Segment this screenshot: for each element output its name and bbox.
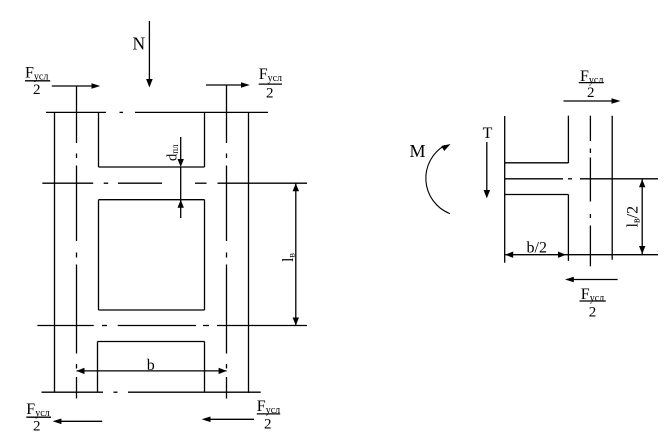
label F_usl/2 upper-left xyxy=(25,65,48,98)
bottom reference line xyxy=(505,254,658,256)
svg-text:2: 2 xyxy=(33,418,41,434)
dimension l_v/2 xyxy=(639,179,645,254)
bottom chord solid part 1 xyxy=(42,391,104,393)
force F upper-right arrow xyxy=(206,82,250,88)
opening row3 top edge xyxy=(98,341,205,343)
label F_usl/2 lower-right xyxy=(257,398,280,432)
opening left edge row3 xyxy=(97,342,99,393)
force N arrow xyxy=(146,21,153,88)
opening left edge row1 xyxy=(98,112,100,167)
force F lower-left arrow xyxy=(53,419,103,425)
upper opening bottom edge xyxy=(505,162,569,164)
label F_usl/2 lower-left xyxy=(26,401,49,434)
dimension b xyxy=(77,368,227,374)
bottom chord solid part 2 xyxy=(128,391,261,393)
floor centerline right-diagram xyxy=(505,178,658,180)
dimension d_pl arrows xyxy=(178,137,184,218)
force F lower-right arrow xyxy=(202,417,254,423)
wall edge right-diagram left xyxy=(504,116,506,263)
moment M arc xyxy=(426,144,451,214)
floor centerline 1 xyxy=(42,182,307,184)
fraction bar upper-left xyxy=(25,80,50,82)
label F_usl/2 right-bottom xyxy=(581,286,604,320)
svg-text:b: b xyxy=(147,357,155,374)
wall edge right-diagram right xyxy=(611,116,613,260)
svg-text:2: 2 xyxy=(266,86,274,102)
svg-text:lв/2: lв/2 xyxy=(625,206,643,228)
opening right edge row1 xyxy=(204,112,206,167)
label F_usl/2 upper-right xyxy=(259,66,282,102)
dimension l_v xyxy=(293,183,299,325)
fraction bar upper-right xyxy=(259,83,282,85)
opening edge lower xyxy=(567,195,569,261)
force F upper-left arrow xyxy=(52,83,100,89)
svg-text:b/2: b/2 xyxy=(527,239,547,256)
right pier centerline xyxy=(226,85,228,399)
fraction bar lower-right xyxy=(257,413,280,415)
wall outer edge right xyxy=(248,112,250,393)
force F right-bottom arrow xyxy=(565,277,618,283)
svg-text:M: M xyxy=(410,141,426,161)
wall centerline right-diagram xyxy=(589,116,591,267)
fraction bar right-bottom xyxy=(580,300,606,302)
svg-text:T: T xyxy=(483,125,493,142)
opening right edge row3 xyxy=(204,342,206,393)
lower opening top edge xyxy=(505,194,569,196)
opening row1 bottom edge xyxy=(99,166,205,168)
opening row2 top edge xyxy=(99,199,205,201)
top chord solid part 2 xyxy=(135,111,268,113)
label F_usl/2 right-top xyxy=(580,68,603,101)
opening row2 bottom edge xyxy=(99,309,205,311)
bottom chord dot xyxy=(114,391,118,393)
svg-text:N: N xyxy=(133,34,146,54)
svg-text:2: 2 xyxy=(33,82,41,98)
svg-text:2: 2 xyxy=(589,304,597,320)
fraction bar right-top xyxy=(579,82,604,84)
force F right-top arrow xyxy=(564,98,621,104)
opening left edge row2 xyxy=(98,200,100,310)
top chord dot xyxy=(120,111,124,113)
top chord solid part 1 xyxy=(46,111,106,113)
opening right edge row2 xyxy=(204,200,206,310)
fraction bar lower-left xyxy=(26,416,51,418)
force T arrow xyxy=(484,142,491,198)
left pier centerline xyxy=(76,86,78,399)
opening edge upper xyxy=(567,116,569,163)
floor centerline 2 xyxy=(37,325,307,327)
svg-text:2: 2 xyxy=(264,416,272,432)
wall outer edge left xyxy=(54,112,56,392)
dimension b/2 arrowheads xyxy=(505,252,566,258)
svg-text:2: 2 xyxy=(587,85,595,101)
